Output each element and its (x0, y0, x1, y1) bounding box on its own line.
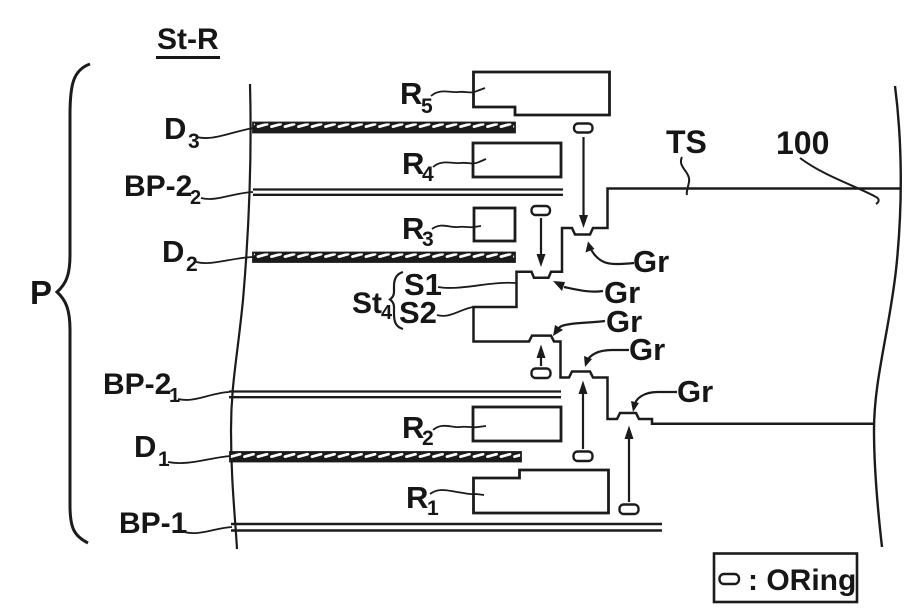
label St-R (156, 23, 220, 58)
svg-text:St-R: St-R (157, 23, 219, 56)
leader R2 (433, 426, 486, 430)
label D3 (164, 111, 200, 153)
label R1 (406, 480, 439, 520)
svg-text:R: R (406, 480, 428, 515)
leader 100 (800, 158, 879, 204)
arrow up to Gr notch 5 (625, 426, 634, 503)
leader Gr 4 (584, 350, 629, 367)
leader BP-1 (184, 527, 232, 533)
svg-text:BP-1: BP-1 (119, 507, 187, 540)
leader Gr 2 (553, 281, 603, 292)
brace P (57, 64, 90, 543)
label R4 (402, 146, 434, 186)
legend ORing symbol (720, 574, 740, 584)
svg-text:BP-2: BP-2 (103, 368, 171, 401)
leader S1 (438, 283, 516, 288)
svg-text:4: 4 (422, 163, 434, 186)
resistor block R1 (474, 470, 609, 513)
resistor block R3 (474, 208, 515, 241)
label R5 (400, 76, 433, 118)
svg-text:1: 1 (169, 385, 180, 407)
conductor D3 (hatched bar) (253, 123, 515, 133)
svg-text:4: 4 (381, 302, 393, 324)
conductor BP-2_1 (double line) (229, 392, 561, 398)
svg-text:Gr: Gr (633, 244, 669, 279)
arrow from ORing to Gr notch 2 (537, 218, 546, 267)
leader D3 (197, 128, 253, 138)
leader BP-2_1 (178, 392, 229, 400)
label BP-2_2 (124, 170, 201, 209)
conductor D1 (hatched bar) (230, 452, 521, 462)
svg-text:3: 3 (422, 228, 434, 251)
svg-text:Gr: Gr (677, 374, 713, 409)
conductor D2 (hatched bar) (253, 253, 515, 263)
leader R3 (432, 226, 481, 229)
leader BP-2_2 (201, 192, 253, 199)
ORing symbol below notch 3 (532, 369, 551, 379)
label BP-2_1 (103, 368, 180, 407)
label D2 (162, 234, 198, 276)
arrow up to Gr notch 4 (579, 381, 588, 450)
label D1 (134, 429, 170, 471)
svg-text:D: D (162, 234, 184, 269)
arrow from ORing to Gr notch 1 (579, 137, 588, 228)
leader R4 (433, 159, 486, 167)
leader Gr 3 (553, 321, 605, 336)
svg-text:100: 100 (776, 125, 829, 161)
svg-text:St: St (352, 287, 382, 320)
svg-text:3: 3 (188, 130, 200, 153)
conductor BP-1 (double line) (231, 524, 662, 531)
leader D2 (196, 257, 253, 263)
leader R5 (431, 88, 485, 96)
ORing symbol beside D1 end (574, 452, 593, 462)
svg-text:D: D (134, 429, 156, 464)
brace S1 S2 (390, 272, 403, 329)
svg-text:D: D (164, 111, 186, 146)
leader TS (681, 157, 689, 195)
leader Gr 5 (631, 392, 677, 412)
svg-text:: ORing: : ORing (748, 564, 856, 597)
label R3 (402, 211, 434, 251)
leader R1 (430, 490, 484, 495)
svg-text:BP-2: BP-2 (124, 170, 192, 203)
label R2 (402, 410, 434, 450)
conductor BP-2_2 (double line) (253, 190, 563, 195)
right boundary wavy line (874, 86, 901, 547)
svg-text:2: 2 (190, 187, 201, 209)
left boundary wavy line (231, 84, 251, 549)
svg-text:1: 1 (427, 497, 439, 520)
ORing symbol beside R1 (620, 505, 639, 515)
svg-text:1: 1 (158, 448, 170, 471)
ORing symbol below R5 (574, 124, 593, 133)
svg-text:2: 2 (186, 253, 198, 276)
label St4 (352, 287, 393, 324)
resistor block R4 (473, 143, 561, 177)
resistor block R2 (473, 407, 561, 441)
svg-text:TS: TS (666, 124, 707, 160)
svg-text:S2: S2 (399, 295, 437, 330)
svg-text:P: P (30, 274, 52, 311)
resistor block R5 (474, 72, 610, 115)
legend box (714, 554, 857, 603)
leader D1 (168, 456, 230, 463)
TS electrode staircase (474, 189, 902, 424)
svg-text:2: 2 (422, 427, 434, 450)
leader S2 (437, 307, 474, 316)
svg-text:R: R (400, 76, 422, 111)
ORing symbol beside R3 (532, 206, 551, 215)
leader Gr 1 (586, 242, 635, 265)
svg-text:Gr: Gr (629, 332, 665, 367)
arrow up to Gr notch 3 (537, 345, 546, 367)
svg-text:5: 5 (421, 95, 433, 118)
